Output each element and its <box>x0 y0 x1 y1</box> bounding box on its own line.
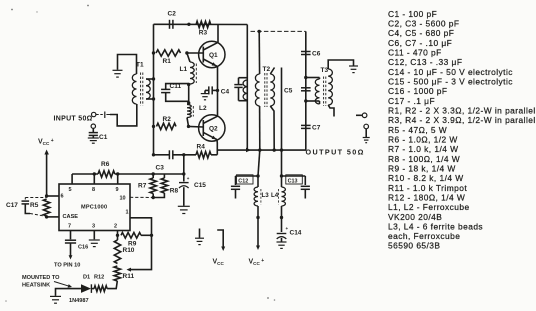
inductor on bus <box>243 80 247 100</box>
svg-text:8: 8 <box>92 187 95 193</box>
svg-text:C16: C16 <box>78 245 88 251</box>
svg-text:R1, R2 - 2 X 3.3Ω, 1/2-W in pa: R1, R2 - 2 X 3.3Ω, 1/2-W in parallel <box>388 106 536 116</box>
label Vcc+ left <box>38 138 54 146</box>
svg-text:C7: C7 <box>312 125 321 132</box>
svg-text:MPC1000: MPC1000 <box>81 205 107 211</box>
pin 6 label <box>61 194 64 200</box>
pin 7 <box>68 224 71 240</box>
svg-text:TO PIN 10: TO PIN 10 <box>54 262 80 268</box>
node rail T2b <box>273 148 276 151</box>
capacitor of tank <box>234 78 247 101</box>
node Q2 base junction <box>187 125 190 128</box>
ferrite core of L2 <box>192 106 194 117</box>
inductor T2 right winding <box>270 68 274 107</box>
node rail-R7 <box>152 172 155 175</box>
svg-text:L1, L2 - Ferroxcube: L1, L2 - Ferroxcube <box>388 202 470 212</box>
input terminal hot <box>92 112 111 119</box>
wire output rail <box>217 149 306 151</box>
node C4 tap <box>216 89 219 92</box>
op-amp U1 MPC1000 package <box>59 184 130 231</box>
node sec top <box>152 77 155 80</box>
svg-text:L3, L4 - 6 ferrite beads: L3, L4 - 6 ferrite beads <box>388 221 483 231</box>
wire T1 primary top <box>118 55 137 75</box>
svg-text:R8: R8 <box>170 188 179 195</box>
node L3 bottom <box>256 216 259 219</box>
resistor R9 <box>121 233 152 248</box>
svg-text:R11: R11 <box>123 273 135 280</box>
wire T2 primary top lead <box>258 31 260 74</box>
output terminal hot <box>356 113 367 118</box>
svg-text:C4: C4 <box>221 88 230 95</box>
wire L1-L2 link <box>188 85 190 104</box>
input terminal gnd <box>91 124 95 128</box>
svg-text:C3: C3 <box>156 165 165 172</box>
node R7 bottom <box>152 196 155 199</box>
node junction on top rail <box>187 23 190 26</box>
wire L3 to Vcc <box>256 206 260 250</box>
wire R11 bottom <box>107 281 117 289</box>
pin 1 label <box>126 210 129 216</box>
wire left bus <box>153 24 155 155</box>
svg-text:2: 2 <box>114 224 117 230</box>
ferrite core of L1 <box>195 64 197 84</box>
wire T1 sec bottom <box>146 98 154 100</box>
svg-text:Q1: Q1 <box>209 52 218 59</box>
inductor T2 left winding <box>255 74 259 106</box>
svg-text:C1 - 100 pF: C1 - 100 pF <box>388 9 437 19</box>
svg-text:R3: R3 <box>199 30 208 37</box>
capacitor C1 <box>88 129 108 144</box>
transformer T1 label <box>136 62 144 69</box>
wire pin rail <box>72 173 184 175</box>
wire T3 sec top lead <box>328 60 353 69</box>
wire R4 end <box>211 154 217 156</box>
capacitor C15 <box>178 155 207 214</box>
node L4 top <box>280 174 283 177</box>
wire T2 right bottom lead <box>270 106 274 150</box>
wire D1 anode <box>56 289 82 296</box>
wire pin6 <box>47 195 59 197</box>
label Vcc+ under L3 <box>249 258 265 266</box>
resistor R2 <box>157 116 177 130</box>
svg-text:10: 10 <box>120 196 126 202</box>
arrow on rail <box>246 148 251 153</box>
label TO PIN 10 <box>54 262 80 268</box>
svg-text:+: + <box>286 226 289 231</box>
wire C6 column <box>305 31 307 150</box>
ferrite beads L4 <box>278 189 280 205</box>
svg-text:R10 - 8.2 k, 1/4 W: R10 - 8.2 k, 1/4 W <box>388 173 464 183</box>
node T2 primary top <box>258 30 261 33</box>
node Q1 base junction <box>185 51 188 54</box>
svg-text:R9 - 18 k, 1/4 W: R9 - 18 k, 1/4 W <box>388 164 456 174</box>
svg-text:R7: R7 <box>138 183 147 190</box>
svg-text:L1: L1 <box>180 66 188 73</box>
wire branch stub <box>281 68 283 151</box>
svg-text:C15 - 500 μF - 3 V electrolyti: C15 - 500 μF - 3 V electrolytic <box>388 77 513 87</box>
capacitor C7 <box>301 125 321 132</box>
wire T1 sec top <box>146 78 154 80</box>
svg-text:6: 6 <box>61 194 64 200</box>
svg-text:C6, C7 - .10 μF: C6, C7 - .10 μF <box>388 38 452 48</box>
node feedback-R9 <box>150 234 153 237</box>
svg-text:R10: R10 <box>123 247 135 254</box>
wire pin 10 lead <box>130 196 153 198</box>
svg-text:R12 - 180Ω, 1/4 W: R12 - 180Ω, 1/4 W <box>388 192 465 202</box>
pin 9 <box>116 172 120 193</box>
wire C12 link <box>236 175 259 177</box>
diode D1 <box>81 275 91 293</box>
svg-text:1: 1 <box>126 210 129 216</box>
label OUTPUT <box>306 148 365 157</box>
capacitor C12 <box>231 175 253 199</box>
node pin6 <box>45 194 48 197</box>
svg-text:9: 9 <box>116 187 119 193</box>
svg-text:C17 - .1 μF: C17 - .1 μF <box>388 96 435 106</box>
wire T2 left bottom lead <box>259 106 261 150</box>
label MOUNTED TO HEATSINK <box>22 275 60 289</box>
transformer T3 label <box>321 67 329 74</box>
wire feedback <box>127 218 152 272</box>
svg-text:INPUT 50Ω: INPUT 50Ω <box>54 116 93 123</box>
svg-text:R2: R2 <box>163 116 172 123</box>
transformer T2 label <box>263 66 271 73</box>
wire interstage <box>217 66 219 116</box>
svg-text:C14: C14 <box>290 230 302 237</box>
capacitor C16 <box>65 240 88 259</box>
ground at pin 3 <box>89 240 100 247</box>
resistor R5 <box>30 199 50 216</box>
svg-text:C11: C11 <box>170 83 182 90</box>
capacitor C5 <box>284 88 311 95</box>
wire Q2 emitter <box>216 140 218 155</box>
capacitor C6 <box>301 51 321 58</box>
wire L4 branch <box>281 150 283 176</box>
svg-text:L2: L2 <box>199 105 207 112</box>
svg-text:R7 - 1.0 k, 1/4 W: R7 - 1.0 k, 1/4 W <box>388 144 458 154</box>
inductor L4 <box>271 176 285 206</box>
Vcc arrow hook <box>217 230 225 251</box>
node L4 bottom <box>280 216 283 219</box>
heatsink arrow <box>54 282 72 288</box>
inductor T3 secondary <box>328 69 332 105</box>
resistor R4 <box>196 144 211 159</box>
node rail branch <box>280 148 283 151</box>
svg-text:T2: T2 <box>263 66 271 73</box>
svg-text:C13: C13 <box>288 178 298 184</box>
ground at T1 primary <box>113 70 123 77</box>
wire right bus <box>246 25 248 151</box>
node R5 bottom <box>45 215 48 218</box>
wire CASE lead <box>47 216 59 218</box>
resistor R10 <box>114 235 135 263</box>
svg-text:C12: C12 <box>238 178 248 184</box>
label 1N4987 <box>69 298 89 304</box>
wire C3-R4 <box>173 154 196 156</box>
node L3 top <box>256 174 259 177</box>
resistor R7 <box>138 174 156 198</box>
svg-text:C16 - 1000 pF: C16 - 1000 pF <box>388 86 447 96</box>
svg-text:R3, R4 - 2 X 3.9Ω, 1/2-W in pa: R3, R4 - 2 X 3.9Ω, 1/2-W in parallel <box>388 115 536 125</box>
node rail T2a <box>258 148 261 151</box>
svg-text:HEATSINK: HEATSINK <box>22 283 50 289</box>
resistor R12 <box>91 275 107 292</box>
svg-text:56590 65/3B: 56590 65/3B <box>388 241 440 251</box>
node C15 top <box>182 153 185 156</box>
wire T3 sec bottom lead <box>328 105 334 117</box>
svg-text:L4: L4 <box>271 192 279 199</box>
capacitor C14 <box>277 206 302 248</box>
wire Q1 collector <box>217 25 219 43</box>
capacitor C3 <box>156 150 173 171</box>
svg-text:R11 - 1.0 k Trimpot: R11 - 1.0 k Trimpot <box>388 183 467 193</box>
svg-text:R6 - 1.0Ω, 1/2 W: R6 - 1.0Ω, 1/2 W <box>388 135 458 145</box>
ground at T3 top <box>349 66 358 73</box>
capacitor C13 <box>286 175 310 199</box>
node C6-C5 <box>304 76 307 79</box>
svg-text:VK200 20/4B: VK200 20/4B <box>388 212 442 222</box>
svg-text:R5 - 47Ω, 5 W: R5 - 47Ω, 5 W <box>388 125 447 135</box>
svg-text:R8 - 100Ω, 1/4 W: R8 - 100Ω, 1/4 W <box>388 154 460 164</box>
inductor L1 <box>180 53 195 84</box>
capacitor C17 <box>6 198 47 217</box>
output terminal gnd <box>363 124 370 143</box>
inductor L2 <box>187 105 207 127</box>
capacitor C11 <box>161 83 189 101</box>
svg-text:CASE: CASE <box>63 214 79 220</box>
node bus-C3line <box>152 153 155 156</box>
capacitor C2 <box>168 11 177 29</box>
transistor Q2 <box>199 115 225 141</box>
svg-text:3: 3 <box>92 224 95 230</box>
svg-text:C2, C3 - 5600 pF: C2, C3 - 5600 pF <box>388 19 459 29</box>
svg-text:MOUNTED TO: MOUNTED TO <box>22 275 60 281</box>
svg-text:R12: R12 <box>94 275 104 281</box>
Vcc supply arrow <box>44 150 49 197</box>
svg-text:Q2: Q2 <box>209 126 218 133</box>
svg-text:L3: L3 <box>262 192 270 199</box>
svg-text:C17: C17 <box>6 202 18 209</box>
wire top rail <box>154 23 248 25</box>
node rail-C15 <box>182 172 185 175</box>
svg-text:C6: C6 <box>312 51 321 58</box>
svg-text:OUTPUT 50Ω: OUTPUT 50Ω <box>306 148 365 157</box>
resistor R6 <box>98 161 115 177</box>
wire Q1 base lead <box>187 52 203 54</box>
wire Q2 base lead <box>189 125 204 128</box>
svg-text:R1: R1 <box>163 58 172 65</box>
svg-text:7: 7 <box>68 224 71 230</box>
wire T3 primary top lead <box>306 78 320 80</box>
svg-text:C1: C1 <box>99 134 108 141</box>
core T2 <box>265 73 267 107</box>
svg-text:D1: D1 <box>83 275 90 281</box>
svg-text:C11 - 470 pF: C11 - 470 pF <box>388 48 442 58</box>
node C5-C7 <box>304 99 307 102</box>
inductor T1 secondary <box>146 79 150 99</box>
svg-text:R4: R4 <box>197 144 206 151</box>
resistor R8 <box>153 174 178 198</box>
wire shield rail <box>251 30 306 32</box>
inductor L3 <box>254 176 269 206</box>
core T3 <box>324 77 326 107</box>
svg-text:C5: C5 <box>284 88 293 95</box>
wire C3 line <box>154 154 170 156</box>
svg-text:C12, C13 - .33 μF: C12, C13 - .33 μF <box>388 57 462 67</box>
svg-text:C14 - 10 μF - 50 V electrolyti: C14 - 10 μF - 50 V electrolytic <box>388 67 513 77</box>
label INPUT <box>54 116 93 123</box>
svg-text:C4, C5 - 680 pF: C4, C5 - 680 pF <box>388 28 454 38</box>
resistor R3 <box>196 21 211 36</box>
ferrite beads L3 <box>260 189 262 205</box>
transistor Q1 <box>199 41 225 67</box>
wire C13 link <box>282 175 306 177</box>
inductor T3 left winding <box>315 79 319 104</box>
capacitor C4 <box>201 86 230 99</box>
svg-text:R6: R6 <box>101 161 110 168</box>
node sec bottom <box>152 97 155 100</box>
inductor T1 primary <box>132 74 136 104</box>
core T1 <box>141 73 143 106</box>
label Vcc <box>213 259 225 267</box>
pin 10 label <box>120 196 126 202</box>
speck <box>5 5 275 302</box>
svg-text:C2: C2 <box>168 11 177 18</box>
pin 2 <box>114 224 118 236</box>
node L1 bottom <box>187 83 190 86</box>
svg-text:5: 5 <box>69 187 72 193</box>
node L2 top <box>187 101 190 104</box>
resistor R11 <box>114 266 134 281</box>
resistor R1 <box>156 50 181 65</box>
parts list <box>388 9 536 251</box>
wire T1 primary bottom hook <box>110 104 137 126</box>
ground floating <box>195 229 204 245</box>
node pin2-R9 <box>116 234 119 237</box>
svg-text:+: + <box>187 176 190 181</box>
pin 8 <box>92 172 96 193</box>
pin 3 <box>92 224 95 240</box>
node bus-R1 <box>152 51 155 54</box>
ground at D1 <box>50 296 61 303</box>
svg-text:each, Ferroxcube: each, Ferroxcube <box>388 231 460 241</box>
node bus-R2 <box>152 125 155 128</box>
wire T3 primary bottom lead <box>306 101 320 104</box>
wire L3 branch top <box>258 150 260 176</box>
pin 5 <box>69 174 73 193</box>
svg-text:R5: R5 <box>30 202 39 209</box>
svg-text:T3: T3 <box>321 67 329 74</box>
svg-text:C15: C15 <box>194 182 206 189</box>
svg-text:1N4987: 1N4987 <box>69 298 89 304</box>
